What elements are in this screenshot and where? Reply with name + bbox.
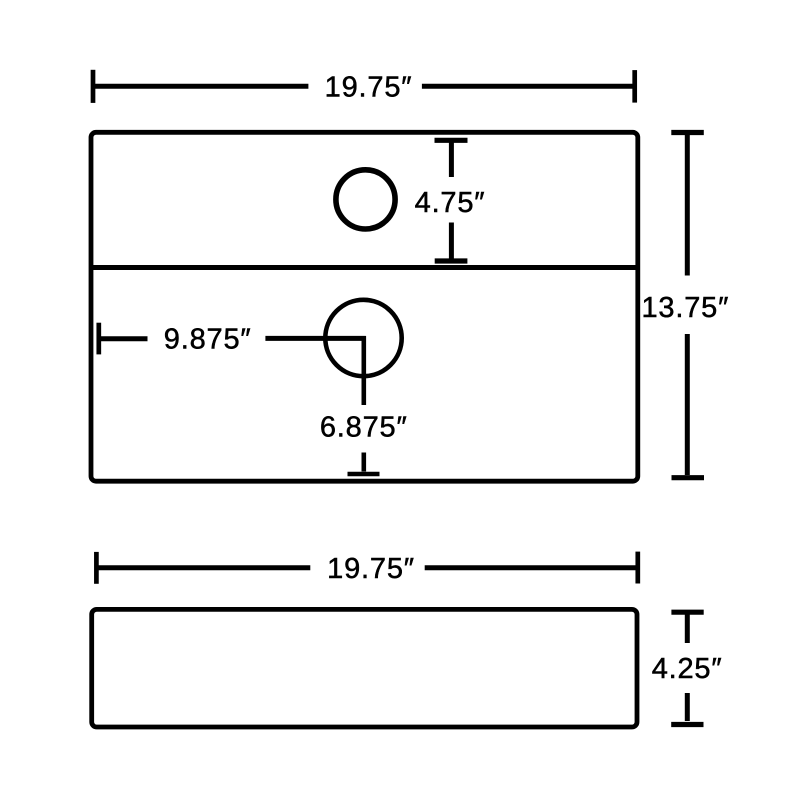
svg-text:19.75″: 19.75″ xyxy=(325,71,413,103)
svg-text:13.75″: 13.75″ xyxy=(642,292,730,324)
svg-text:19.75″: 19.75″ xyxy=(327,553,415,585)
svg-text:4.75″: 4.75″ xyxy=(415,187,486,219)
svg-text:4.25″: 4.25″ xyxy=(652,653,723,685)
svg-text:6.875″: 6.875″ xyxy=(320,411,408,443)
svg-text:9.875″: 9.875″ xyxy=(164,323,252,355)
